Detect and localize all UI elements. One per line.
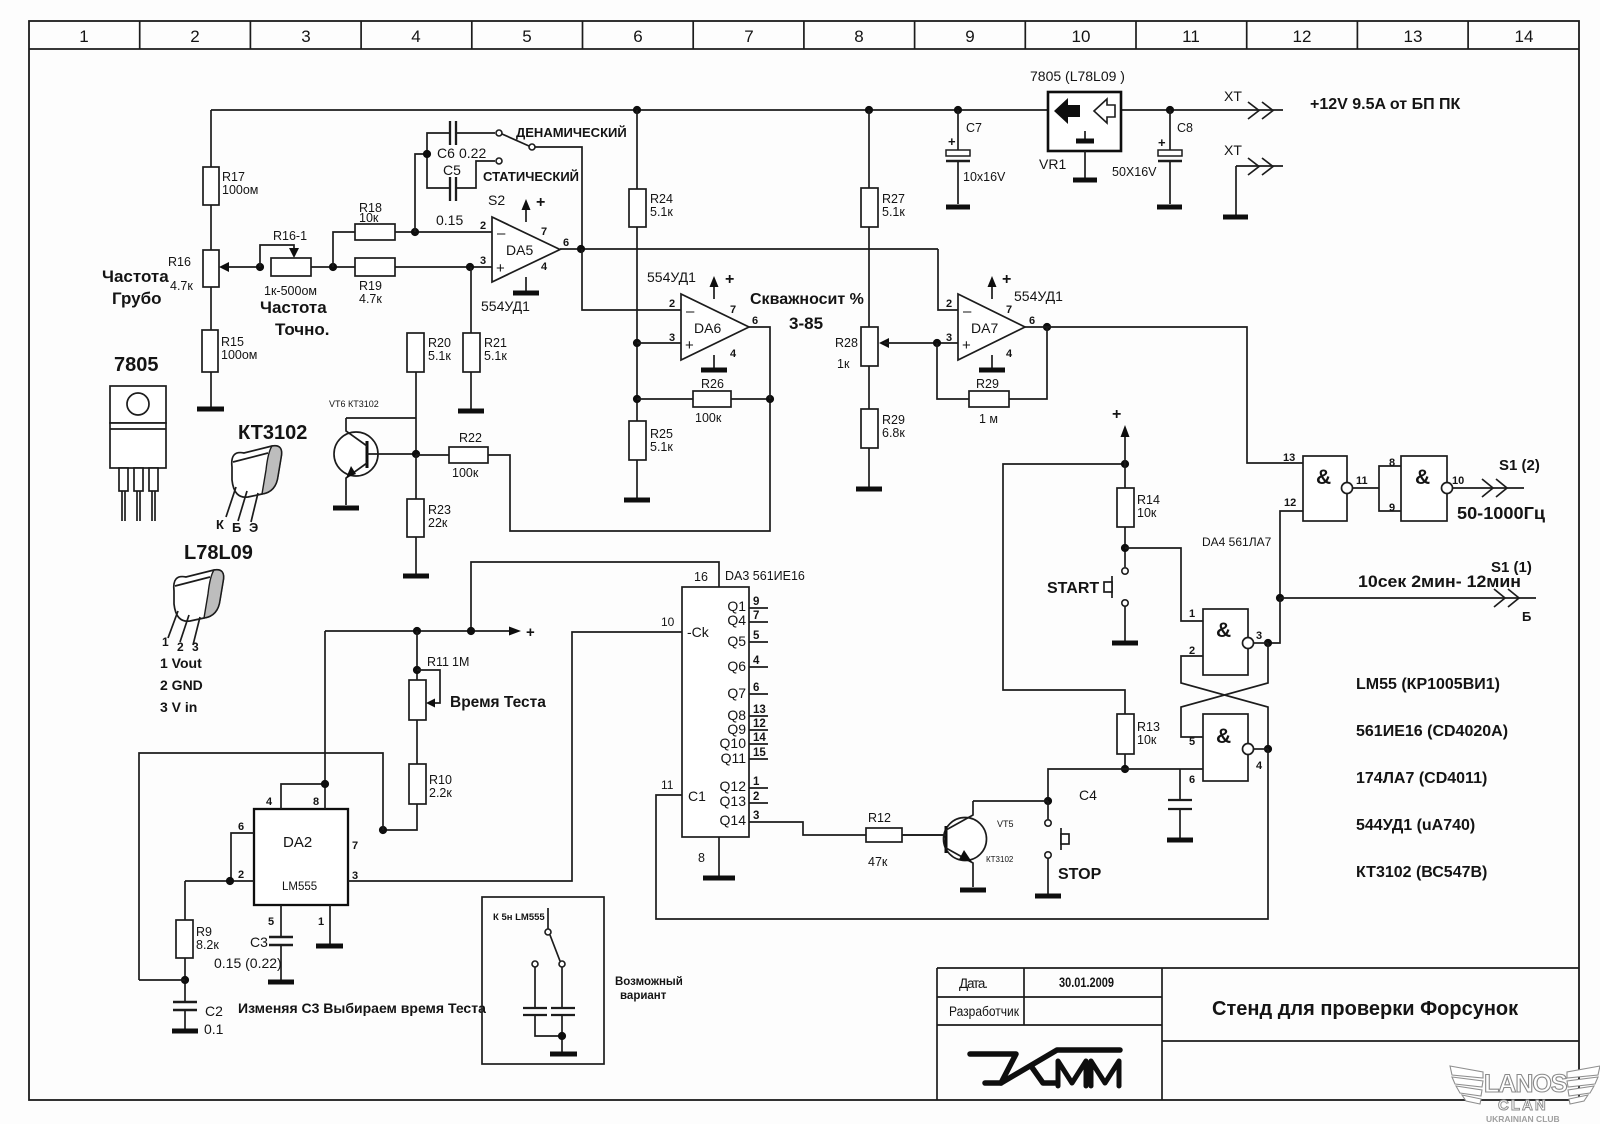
logo LANOS CLAN — [1450, 1066, 1600, 1124]
svg-text:100ом: 100ом — [221, 348, 257, 362]
svg-text:&: & — [1415, 466, 1430, 489]
svg-text:Q11: Q11 — [721, 750, 747, 766]
svg-text:1: 1 — [1189, 608, 1195, 620]
svg-text:22к: 22к — [428, 516, 448, 530]
wire R10 to DA2 pin7 — [383, 804, 417, 830]
wire R28 to R29 — [868, 366, 870, 409]
svg-text:4: 4 — [1006, 348, 1013, 360]
potentiometer R11 1M — [409, 631, 546, 720]
potentiometer R16 4.7к — [168, 250, 260, 293]
wire VR1 to ground — [1084, 151, 1086, 178]
svg-text:ДЕНАМИЧЕСКИЙ: ДЕНАМИЧЕСКИЙ — [516, 125, 627, 140]
resistor R21 5.1к — [463, 333, 507, 372]
svg-text:2: 2 — [480, 220, 486, 232]
svg-text:R20: R20 — [428, 336, 451, 350]
ground under STOP — [1035, 894, 1061, 899]
svg-text:R25: R25 — [650, 427, 673, 441]
svg-text:START: START — [1047, 580, 1099, 597]
svg-text:1: 1 — [79, 27, 88, 46]
svg-text:2: 2 — [177, 640, 184, 654]
wire S1(1) node down to latch output — [1268, 598, 1280, 643]
wire R14 to START node — [1124, 527, 1126, 567]
svg-text:5.1к: 5.1к — [428, 349, 451, 363]
svg-text:Стенд для проверки Форсунок: Стенд для проверки Форсунок — [1212, 998, 1519, 1020]
svg-text:Возможный: Возможный — [615, 976, 683, 988]
svg-text:Б: Б — [1522, 609, 1531, 624]
svg-text:Q4: Q4 — [727, 612, 746, 628]
svg-text:Разработчик: Разработчик — [949, 1004, 1019, 1019]
svg-text:R10: R10 — [429, 773, 452, 787]
svg-text:Q7: Q7 — [727, 685, 746, 701]
wire rail to R24 — [636, 110, 638, 189]
svg-text:6: 6 — [752, 315, 758, 327]
regulator VR1 7805 (L78L09) — [1030, 68, 1125, 172]
wire R16-1 to R18/R19 node — [311, 266, 355, 268]
svg-text:R11: R11 — [427, 655, 449, 669]
wire rail down to R17 — [210, 110, 212, 167]
node R13 bottom junction — [1121, 765, 1129, 773]
svg-text:544УД1 (uA740): 544УД1 (uA740) — [1356, 817, 1475, 834]
node DA7 pin3 junction — [933, 339, 941, 347]
wire R22 to DA6 output net — [488, 400, 770, 531]
transistor VT5 КТ3102 — [903, 801, 1014, 887]
svg-text:L78L09: L78L09 — [184, 542, 253, 564]
svg-text:16: 16 — [694, 570, 708, 584]
svg-text:DA5: DA5 — [506, 242, 533, 258]
svg-text:6: 6 — [563, 237, 569, 249]
svg-text:2: 2 — [946, 298, 952, 310]
svg-text:6: 6 — [238, 821, 244, 833]
package drawing КТ3102 TO-92 — [216, 422, 307, 535]
svg-text:5.1к: 5.1к — [650, 440, 673, 454]
op-amp DA5 554УД1 — [480, 194, 569, 314]
resistor R14 10к — [1117, 488, 1160, 527]
svg-text:5: 5 — [753, 630, 760, 642]
svg-text:C5: C5 — [443, 162, 461, 178]
svg-text:+: + — [948, 134, 956, 149]
wire C6/C5 left branch — [427, 133, 450, 188]
svg-text:7: 7 — [1006, 304, 1012, 316]
wire base node to R22 — [416, 454, 449, 456]
capacitor C4 — [1079, 769, 1193, 840]
wire R28 wiper to DA7 pin3 — [884, 342, 958, 344]
svg-text:Б: Б — [232, 520, 241, 535]
capacitor C8 50X16V — [1112, 110, 1193, 207]
svg-text:+: + — [526, 624, 535, 641]
ground under R25 — [624, 498, 650, 503]
svg-text:VT5: VT5 — [997, 819, 1014, 829]
svg-text:7805: 7805 — [114, 354, 159, 376]
svg-text:1 Vout: 1 Vout — [160, 655, 202, 671]
svg-text:Q5: Q5 — [727, 633, 746, 649]
svg-text:5: 5 — [522, 27, 531, 46]
wire R14 — [1124, 464, 1126, 488]
svg-text:4: 4 — [753, 655, 760, 667]
wire R11 to R10 — [416, 720, 418, 764]
svg-text:C8: C8 — [1177, 121, 1193, 135]
potentiometer R28 1к — [835, 327, 889, 371]
DA3 outputs Q1-Q14 — [720, 596, 768, 828]
svg-text:R12: R12 — [868, 811, 891, 825]
svg-text:5: 5 — [1189, 736, 1195, 748]
svg-text:&: & — [1216, 725, 1231, 748]
wire R12 to VT5 base — [902, 834, 946, 836]
wire DA2 pin6 to pin2 — [231, 833, 254, 881]
ground under R23 — [403, 574, 429, 579]
svg-text:6: 6 — [633, 27, 642, 46]
node rail junction R24 — [633, 106, 641, 114]
wire collector to node — [973, 800, 1048, 802]
svg-text:3: 3 — [753, 810, 759, 822]
op-amp DA7 554УД1 — [946, 271, 1063, 370]
svg-text:R29: R29 — [882, 413, 905, 427]
resistor R10 2.2к — [409, 764, 452, 804]
wire R27 to R28 — [868, 227, 870, 327]
svg-text:8: 8 — [854, 27, 863, 46]
svg-text:R22: R22 — [459, 431, 482, 445]
svg-text:1к-500ом: 1к-500ом — [264, 284, 317, 298]
wire +V feed to R14 — [1003, 464, 1125, 714]
svg-text:3-85: 3-85 — [789, 314, 823, 333]
pushbutton STOP — [1045, 801, 1102, 883]
svg-text:C2: C2 — [205, 1003, 223, 1019]
resistor R15 100ом — [202, 330, 257, 372]
svg-text:VR1: VR1 — [1039, 156, 1066, 172]
resistor R13 10к — [1117, 714, 1160, 754]
svg-text:10к: 10к — [1137, 506, 1157, 520]
svg-text:3: 3 — [192, 640, 199, 654]
node DA7 output junction — [1043, 323, 1051, 331]
svg-text:+: + — [962, 337, 971, 354]
capacitor C7 10x16V — [946, 110, 1006, 207]
svg-text:15: 15 — [753, 747, 766, 759]
node START junction — [1121, 544, 1129, 552]
potentiometer R16-1 1к-500ом — [260, 229, 317, 298]
svg-text:R26: R26 — [701, 377, 724, 391]
wire R19 to DA5 pin3 — [395, 266, 492, 268]
resistor R22 100к — [449, 431, 488, 480]
svg-text:14: 14 — [753, 732, 766, 744]
wire rail to R27 — [868, 110, 870, 188]
wire C5 to switch contact — [456, 161, 495, 188]
svg-text:Частота: Частота — [260, 298, 327, 317]
svg-text:Частота: Частота — [102, 267, 169, 286]
svg-text:6: 6 — [1189, 774, 1195, 786]
svg-text:0.22: 0.22 — [459, 145, 486, 161]
svg-text:4: 4 — [730, 348, 737, 360]
wire latch pin6 line — [1048, 769, 1203, 801]
capacitor C2 0.1 — [172, 1002, 224, 1037]
resistor R12 47к — [866, 811, 902, 869]
svg-text:9: 9 — [1389, 502, 1395, 514]
wire discharge line to node — [139, 979, 185, 981]
svg-text:7: 7 — [753, 610, 759, 622]
wire R20 down to VT6 base node — [415, 372, 417, 454]
svg-text:10к: 10к — [1137, 733, 1157, 747]
op-amp DA6 554УД1 — [647, 269, 758, 370]
node latch out4 junction — [1264, 745, 1272, 753]
wire switch common to output node — [535, 147, 582, 249]
node R16 wiper junction — [256, 263, 264, 271]
wire Q14 to R12 — [749, 822, 866, 835]
svg-text:13: 13 — [1283, 452, 1295, 464]
svg-text:UKRAINIAN CLUB: UKRAINIAN CLUB — [1486, 1114, 1560, 1124]
label chip equivalents list — [1356, 676, 1508, 881]
node R18/R19 left junction — [329, 263, 337, 271]
svg-text:4.7к: 4.7к — [359, 292, 382, 306]
node R26 left junction — [633, 395, 641, 403]
wire R9 to C2 node — [184, 958, 186, 1001]
svg-text:LM55 (КР1005ВИ1): LM55 (КР1005ВИ1) — [1356, 676, 1500, 693]
svg-text:S1 (2): S1 (2) — [1499, 457, 1540, 474]
svg-text:5: 5 — [268, 916, 274, 928]
svg-text:10: 10 — [1452, 475, 1464, 487]
wire R26 right to output — [731, 398, 770, 400]
svg-text:10к: 10к — [359, 211, 379, 225]
svg-text:C3: C3 — [250, 934, 268, 950]
svg-text:КТ3102 (ВС547В): КТ3102 (ВС547В) — [1356, 864, 1487, 881]
resistor R26 100к — [693, 377, 731, 425]
svg-text:XT: XT — [1224, 142, 1242, 158]
ground under VR1 — [1073, 178, 1097, 183]
svg-text:R28: R28 — [835, 336, 858, 350]
svg-text:561ИЕ16 (CD4020A): 561ИЕ16 (CD4020A) — [1356, 723, 1508, 740]
ground under R21 — [458, 409, 484, 414]
svg-text:DA3 561ИЕ16: DA3 561ИЕ16 — [725, 569, 805, 583]
wire DA5 output — [560, 248, 938, 250]
wire START to ground — [1124, 606, 1126, 641]
switch in variant box — [547, 908, 549, 929]
capacitor C5 0.15 — [436, 162, 463, 228]
wire DA5 out down to DA7 pin2 — [938, 249, 958, 310]
svg-text:Дата.: Дата. — [959, 976, 988, 991]
node DA2 pin7 junction — [379, 826, 387, 834]
svg-text:R21: R21 — [484, 336, 507, 350]
svg-text:3: 3 — [1256, 630, 1262, 642]
wire cross-coupling pin2 to out4 — [1181, 656, 1268, 749]
svg-text:0.15: 0.15 — [436, 212, 463, 228]
svg-text:+: + — [1112, 406, 1121, 423]
wire +V node line with arrow — [325, 624, 535, 784]
wire DA3 pin16 to +V node — [471, 562, 719, 631]
ground under START — [1112, 641, 1138, 646]
wire R29 to ground — [868, 448, 870, 487]
wire R25 to ground — [636, 460, 638, 498]
node rail junction C7 — [954, 106, 962, 114]
capacitor C3 0.15 (0.22) — [214, 934, 294, 982]
svg-text:13: 13 — [753, 704, 766, 716]
node +V R11 junction — [413, 627, 421, 635]
svg-text:8: 8 — [698, 851, 705, 865]
wire R16 to R15 — [210, 287, 212, 330]
resistor R20 5.1к — [407, 333, 451, 372]
wire output down to DA6 pin2 — [582, 249, 681, 310]
svg-text:14: 14 — [1515, 27, 1534, 46]
svg-text:DA2: DA2 — [283, 834, 312, 851]
resistor R24 5.1к — [629, 189, 673, 227]
switch S2 — [483, 125, 627, 208]
svg-text:LM555: LM555 — [282, 881, 317, 893]
wire gate pin12 — [1280, 511, 1303, 598]
wire STOP to ground — [1047, 858, 1049, 894]
svg-text:7: 7 — [744, 27, 753, 46]
svg-text:6: 6 — [753, 682, 759, 694]
wire to R18 — [333, 232, 355, 267]
wire cross-coupling out3 to pin5 — [1181, 643, 1268, 737]
node VT5 collector junction — [1044, 797, 1052, 805]
wire R13 to pin6 line — [1124, 754, 1126, 769]
wire R23 to ground — [415, 537, 417, 574]
resistor R23 22к — [407, 499, 451, 537]
svg-text:Грубо: Грубо — [112, 289, 162, 308]
svg-text:0.1: 0.1 — [204, 1021, 224, 1037]
transistor VT6 КТ3102 — [329, 399, 416, 508]
svg-text:Q10: Q10 — [720, 735, 747, 751]
svg-text:R27: R27 — [882, 192, 905, 206]
svg-text:100к: 100к — [695, 411, 722, 425]
svg-text:10: 10 — [1072, 27, 1091, 46]
svg-text:1M: 1M — [452, 655, 469, 669]
title block — [937, 968, 1579, 1100]
svg-text:R9: R9 — [196, 925, 212, 939]
wire DA2 pins 4,8 to +V — [281, 784, 325, 809]
wire DA6 output — [749, 327, 770, 399]
node pins4-8 junction — [321, 780, 329, 788]
nand gate DA4.2 pins 5,6,4 — [1189, 714, 1263, 786]
svg-text:Точно.: Точно. — [275, 320, 330, 339]
svg-text:C6: C6 — [437, 145, 455, 161]
node cap branch junction — [423, 150, 431, 158]
connector S1 (1) 10сек 2мин- 12мин — [1280, 559, 1536, 624]
svg-text:2: 2 — [238, 869, 244, 881]
capacitor variant left — [534, 967, 536, 1007]
svg-text:2 GND: 2 GND — [160, 677, 203, 693]
svg-text:C7: C7 — [966, 121, 982, 135]
connector XT output +12V — [1224, 88, 1461, 119]
svg-text:R29: R29 — [976, 377, 999, 391]
svg-text:КТ3102: КТ3102 — [238, 422, 307, 444]
svg-text:R23: R23 — [428, 503, 451, 517]
connector XT ground — [1223, 142, 1283, 217]
svg-text:5.1к: 5.1к — [484, 349, 507, 363]
svg-text:4.7к: 4.7к — [170, 279, 193, 293]
svg-text:+: + — [725, 271, 734, 288]
node R18 / C-int / R20 junction — [411, 228, 419, 236]
svg-text:&: & — [1316, 466, 1331, 489]
power arrow + above R14 — [1112, 406, 1130, 464]
ground under VT5 — [960, 888, 986, 893]
wire +12V rail — [211, 109, 1048, 111]
svg-text:+: + — [1158, 135, 1166, 150]
resistor R18 10к — [355, 201, 395, 240]
node R14 top junction — [1121, 460, 1129, 468]
timer DA2 LM555 — [238, 796, 358, 928]
svg-text:Время Теста: Время Теста — [450, 694, 546, 711]
logo КММ — [970, 1050, 1120, 1086]
svg-text:6.8к: 6.8к — [882, 426, 905, 440]
resistor R29 1 м feedback — [969, 377, 1009, 426]
connector S1 (2) 50-1000Гц — [1453, 457, 1546, 523]
svg-text:11: 11 — [661, 778, 674, 792]
node latch out3 junction — [1264, 639, 1272, 647]
svg-text:Q12: Q12 — [720, 778, 747, 794]
svg-text:C4: C4 — [1079, 787, 1097, 803]
svg-text:R17: R17 — [222, 170, 245, 184]
svg-text:CLAN: CLAN — [1498, 1097, 1548, 1114]
svg-text:DA6: DA6 — [694, 320, 721, 336]
wire R15 to ground — [210, 372, 212, 407]
svg-text:R16-1: R16-1 — [273, 229, 307, 243]
node R26 right junction — [766, 395, 774, 403]
svg-text:10: 10 — [661, 615, 675, 629]
svg-text:DA4 561ЛА7: DA4 561ЛА7 — [1202, 535, 1272, 549]
svg-text:554УД1: 554УД1 — [647, 269, 696, 285]
ground under R29 — [856, 487, 882, 492]
capacitor C6 0.22 — [437, 121, 486, 161]
svg-text:1 м: 1 м — [979, 412, 998, 426]
node pin2 junction — [226, 877, 234, 885]
svg-text:4: 4 — [266, 796, 273, 808]
wire C6 to switch contact — [456, 132, 495, 134]
svg-text:1: 1 — [753, 776, 760, 788]
wire R20 branch to VT6 collector — [346, 417, 416, 419]
wire pin2 to R9 — [184, 881, 186, 920]
svg-text:4: 4 — [411, 27, 420, 46]
svg-text:1: 1 — [318, 916, 324, 928]
svg-text:КТ3102: КТ3102 — [986, 855, 1014, 864]
svg-text:554УД1: 554УД1 — [481, 298, 530, 314]
svg-text:11: 11 — [1182, 27, 1200, 46]
svg-text:STOP: STOP — [1058, 866, 1102, 883]
resistor R25 5.1к — [629, 421, 673, 460]
svg-text:R19: R19 — [359, 279, 382, 293]
svg-text:47к: 47к — [868, 855, 888, 869]
svg-text:100ом: 100ом — [222, 183, 258, 197]
svg-text:174ЛА7 (CD4011): 174ЛА7 (CD4011) — [1356, 770, 1487, 787]
svg-text:R13: R13 — [1137, 720, 1160, 734]
svg-text:4: 4 — [1256, 760, 1263, 772]
svg-text:12: 12 — [1284, 497, 1296, 509]
svg-text:7805 (L78L09 ): 7805 (L78L09 ) — [1030, 68, 1125, 84]
svg-text:1: 1 — [162, 635, 169, 649]
wire rail right of VR1 — [1121, 109, 1283, 111]
wire latch out4 — [1254, 748, 1269, 750]
wire DA2 pin2 node — [185, 880, 254, 882]
svg-text:Q14: Q14 — [720, 812, 747, 828]
nand gate DA4.4 pins 13,12,11 — [1283, 452, 1368, 521]
ground under pin1 — [316, 944, 343, 949]
svg-text:-Ck: -Ck — [687, 624, 710, 640]
svg-text:Изменяя C3 Выбираем время Те: Изменяя C3 Выбираем время Теста — [238, 1000, 486, 1016]
svg-text:50X16V: 50X16V — [1112, 165, 1157, 179]
svg-text:554УД1: 554УД1 — [1014, 288, 1063, 304]
wire base node to R23 — [415, 455, 417, 499]
svg-text:3: 3 — [301, 27, 310, 46]
svg-text:DA7: DA7 — [971, 320, 998, 336]
wire R26 left — [637, 398, 693, 400]
node S1(1) junction — [1276, 594, 1284, 602]
svg-text:Скважносит %: Скважносит % — [750, 291, 864, 308]
node DA5 output junction — [577, 245, 585, 253]
svg-text:СТАТИЧЕСКИЙ: СТАТИЧЕСКИЙ — [483, 169, 579, 184]
svg-text:5.1к: 5.1к — [650, 205, 673, 219]
wire R24 down to DA6 pin3 node — [636, 227, 638, 421]
node R9/C2 junction — [181, 976, 189, 984]
svg-text:8.2к: 8.2к — [196, 938, 219, 952]
svg-text:1к: 1к — [837, 357, 850, 371]
svg-text:2: 2 — [669, 298, 675, 310]
wire DA2 pin1 to ground — [329, 905, 331, 944]
